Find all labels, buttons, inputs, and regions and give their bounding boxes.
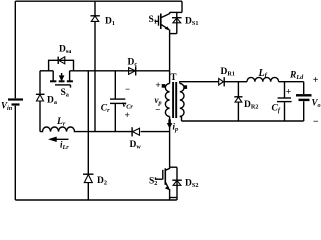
svg-text:+: + [155,81,160,91]
diode DR1 [219,77,239,86]
label Cf [272,104,281,115]
svg-text:Dsa: Dsa [59,45,71,56]
inductor Lf [247,77,279,81]
label Dw [130,140,142,151]
label RLd [289,71,304,82]
node primary dot [162,85,164,87]
diode D2 [83,174,94,182]
wire left rail upper [14,1,16,98]
svg-text:Sa: Sa [61,88,69,99]
svg-text:D1: D1 [105,17,115,28]
capacitor Cf [277,82,292,121]
svg-text:Lf: Lf [258,68,268,79]
label vCr [122,99,133,111]
svg-text:+: + [125,111,130,121]
wire output bottom rail [182,120,304,122]
wire mid rail right segment [70,70,170,72]
label Vin [1,101,13,113]
label DS1 [185,17,198,28]
svg-text:+: + [286,88,291,98]
node secondary dot [184,86,186,88]
label S1 [149,15,157,26]
svg-text:Lr: Lr [56,117,66,128]
label Da [47,95,57,106]
label Vo [312,97,321,109]
label S2 [149,177,157,188]
diode Dc [129,66,136,75]
wire secondary top to output [180,82,219,84]
current arrow ip [167,120,172,129]
wire mid rail left segment [40,70,53,72]
label plus vCr [125,111,130,121]
svg-text:+: + [313,75,319,86]
wire node A to Lf [238,81,247,83]
label DR1 [221,67,235,78]
label Sa [61,88,69,99]
transistor S2 igbt [156,167,178,200]
svg-text:Cr: Cr [101,103,110,114]
label DS2 [185,179,198,190]
wire left rail lower [14,106,16,200]
transformer T primary winding [165,84,169,117]
diode Dsa [58,57,65,64]
label Lr [56,117,66,128]
svg-text:DR2: DR2 [244,100,258,111]
transformer T core [173,82,176,118]
wire trunk upper (S1 emitter to primary top) [169,34,171,84]
svg-text:DS2: DS2 [185,179,198,190]
diode DR2 [234,97,242,102]
svg-text:D2: D2 [97,176,107,187]
diode D1 [91,16,100,22]
wire secondary bottom [180,117,182,122]
transformer T secondary winding [180,84,184,117]
diode Da [36,94,45,101]
svg-text:DS1: DS1 [185,17,198,28]
source Vin [8,100,23,105]
svg-text:Da: Da [47,95,57,106]
transistor Sa mosfet [50,71,73,88]
label plus output [313,75,319,86]
svg-text:vCr: vCr [122,99,133,111]
label minus output [313,116,319,127]
wire Da column [39,71,41,132]
wire bottom mid rail [88,131,169,133]
wire trunk lower (primary bottom to S2) [169,117,171,168]
label T [171,72,177,82]
inductor Lr [40,127,88,132]
label plus Cf [286,88,291,98]
svg-text:Dw: Dw [130,140,142,151]
label plus vp [155,81,160,91]
svg-text:Vin: Vin [1,101,13,113]
label D2 [97,176,107,187]
diode DS1 [172,12,182,33]
current arrow iLr [49,137,69,142]
node D1 column wire [94,1,96,131]
svg-text:T: T [171,72,177,82]
diode DS2 [172,167,182,200]
svg-text:Vo: Vo [312,97,321,109]
svg-text:S1: S1 [149,15,157,26]
label iLr [60,140,69,152]
capacitor Cr [110,71,126,132]
wire Lf to load corner [279,81,304,83]
svg-text:iLr: iLr [60,140,69,152]
svg-text:Cf: Cf [272,104,281,115]
label Cr [101,103,110,114]
label Lf [258,68,268,79]
svg-text:RLd: RLd [289,71,304,82]
label minus vCr [125,84,130,94]
svg-text:−: − [313,116,319,127]
label minus vp [155,104,160,114]
node D2 column wire [87,71,89,200]
svg-text:Dc: Dc [128,58,138,69]
wire Dsa loop [49,60,74,71]
load RLd battery [296,82,312,121]
wire top rail [15,0,182,2]
label Dsa [59,45,71,56]
svg-text:−: − [155,104,160,114]
svg-text:−: − [125,84,130,94]
label D1 [105,17,115,28]
transistor S1 igbt [155,1,183,33]
svg-text:DR1: DR1 [221,67,235,78]
svg-text:ip: ip [173,122,179,134]
label Dc [128,58,138,69]
label ip [173,122,179,134]
diode Dw [132,127,139,136]
label vp [155,95,162,107]
label DR2 [244,100,258,111]
wire DR2 column [237,82,239,121]
wire bottom rail [15,199,177,201]
